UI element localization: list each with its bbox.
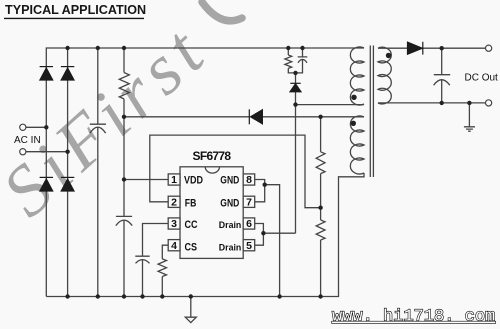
svg-text:8: 8 <box>246 174 252 186</box>
node: FB divider mid <box>318 206 322 210</box>
DC Out terminal top <box>486 45 492 51</box>
wire: snubber R branch <box>287 48 289 55</box>
node: ground rail VDD cap <box>122 294 126 298</box>
node: VDD rail / startup R <box>122 115 126 119</box>
node: primary phase dot <box>351 95 356 100</box>
wire: VDD cap lower lead <box>123 220 125 296</box>
wire: VDD/aux rail to diode <box>124 116 249 118</box>
svg-text:FB: FB <box>185 198 197 210</box>
wire: GND pins to ground rail <box>265 185 280 297</box>
svg-text:TYPICAL APPLICATION: TYPICAL APPLICATION <box>5 3 146 17</box>
wire: CC cap to ground <box>142 260 144 297</box>
transformer primary winding <box>350 47 364 105</box>
wire: bulk cap branch upper <box>97 48 99 124</box>
capacitor C-snubber <box>298 57 308 63</box>
wire: FB feedback loop <box>150 135 321 208</box>
node: aux phase dot <box>351 121 356 126</box>
node: secondary ground <box>467 101 471 105</box>
wire: secondary ground stem <box>468 103 470 127</box>
wire: drain vertical to primary <box>295 73 297 233</box>
node: ground rail CS res <box>160 294 164 298</box>
wire: CC lead <box>143 224 169 257</box>
wire: left bridge leg + top rail <box>46 48 364 297</box>
wire: CS lead <box>162 245 168 259</box>
svg-text:VDD: VDD <box>184 175 203 187</box>
wire: output cap upper lead <box>441 48 443 74</box>
pin 8 box <box>243 174 255 185</box>
svg-text:www. hi1718. com: www. hi1718. com <box>332 308 495 327</box>
diode bridge D2 top-right <box>61 67 74 80</box>
wire: aux diode to aux winding <box>262 116 364 118</box>
svg-text:DC Out: DC Out <box>465 73 499 84</box>
diode D-out (secondary rectifier, pointing right) <box>408 42 423 55</box>
transformer secondary winding <box>378 47 391 104</box>
node: ground rail divider <box>318 294 322 298</box>
diode D-vdd (aux rectifier, pointing left) <box>249 109 262 124</box>
wire: FB divider top <box>320 117 322 152</box>
ground main <box>185 317 196 322</box>
resistor R-snubber <box>285 55 292 68</box>
watermark C (partial, top edge) <box>202 2 242 21</box>
wire: bulk cap branch lower <box>97 127 99 296</box>
wire: secondary top to output <box>378 47 485 49</box>
capacitor C-cc <box>135 256 149 263</box>
wire: CS resistor to ground <box>161 277 163 297</box>
pin 3 box <box>168 218 180 229</box>
wire: right bridge leg <box>67 48 69 297</box>
AC IN terminal top <box>20 124 26 130</box>
wire: pin1 VDD lead <box>124 179 168 181</box>
transformer core <box>370 46 373 178</box>
node: snubber bottom <box>293 71 297 75</box>
node: ground rail right leg <box>65 294 69 298</box>
node: ground rail bulk cap <box>96 294 100 298</box>
node: bulk cap / top rail <box>96 46 100 50</box>
node: GND pins branch <box>263 183 267 187</box>
wire: drain branch <box>263 232 295 234</box>
node: secondary phase dot <box>386 53 391 58</box>
DC Out terminal bottom <box>486 100 492 106</box>
node: ground rail GND pins <box>277 294 281 298</box>
resistor R-startup <box>119 73 129 99</box>
node: startup R / top rail <box>122 46 126 50</box>
diode bridge D4 bottom-right <box>61 177 74 191</box>
svg-text:7: 7 <box>246 197 252 209</box>
wire: startup resistor to VDD node <box>123 99 125 216</box>
node: VDD pin lead <box>122 177 126 181</box>
resistor R-fb-upper <box>316 152 325 174</box>
svg-text:Drain: Drain <box>219 220 242 231</box>
wire: AC bottom terminal to right leg <box>26 151 68 153</box>
title underline <box>4 17 144 19</box>
diode D-clamp (snubber, pointing up) <box>290 83 301 92</box>
capacitor C-bulk <box>90 124 106 133</box>
wire: snubber C bottom <box>296 60 303 73</box>
node: right leg / top rail <box>65 46 69 50</box>
svg-text:SF6778: SF6778 <box>193 149 232 163</box>
pin 7 box <box>243 196 255 207</box>
svg-text:AC IN: AC IN <box>14 135 41 146</box>
wire: ground symbol stem <box>190 297 192 318</box>
diode bridge D1 top-left <box>40 67 53 80</box>
IC text labels <box>171 149 252 253</box>
pin 5 box <box>243 240 255 251</box>
node: drain / primary bottom <box>293 102 297 106</box>
wire: GND pins 8-7 tie <box>255 180 265 202</box>
node: output cap top <box>440 46 444 50</box>
pin 2 box <box>168 196 180 207</box>
pin 4 box <box>168 240 180 251</box>
AC IN terminal bottom <box>20 149 26 155</box>
svg-text:GND: GND <box>220 175 239 187</box>
svg-text:CS: CS <box>185 241 198 253</box>
svg-text:3: 3 <box>171 218 177 230</box>
svg-text:GND: GND <box>220 198 239 210</box>
svg-text:2: 2 <box>171 197 177 209</box>
resistor R-cs <box>158 259 166 277</box>
svg-text:1: 1 <box>171 174 177 186</box>
node: AC top / left leg <box>44 125 48 129</box>
svg-text:CC: CC <box>185 219 198 231</box>
node: aux / FB divider top <box>318 115 322 119</box>
svg-text:6: 6 <box>246 218 252 230</box>
svg-text:5: 5 <box>246 240 252 252</box>
wire: startup resistor branch top <box>123 48 125 73</box>
svg-text:Drain: Drain <box>219 242 242 253</box>
capacitor C-vdd <box>116 216 132 225</box>
wire: output cap lower lead <box>441 80 443 103</box>
capacitor C-out <box>434 75 451 86</box>
node: Drain pins branch <box>261 231 265 235</box>
svg-text:4: 4 <box>171 240 177 252</box>
node: snubber R / top rail <box>286 46 290 50</box>
resistor R-fb-lower <box>316 220 325 240</box>
wire: AC top terminal to left leg <box>26 126 46 128</box>
wire: snubber R bottom <box>288 68 295 73</box>
node: AC bottom / right leg <box>65 150 69 154</box>
ground secondary (earth bars) <box>464 127 475 131</box>
node: snubber C / top rail <box>300 46 304 50</box>
wire: divider middle <box>320 174 322 220</box>
wire: divider bottom to ground rail <box>320 240 322 297</box>
node: ground rail symbol <box>189 294 193 298</box>
node: ground rail CC cap <box>140 294 144 298</box>
wire: bottom ground rail + aux winding return <box>46 173 364 297</box>
pin 6 box <box>243 218 255 229</box>
wire: Drain pins 6-5 tie <box>255 224 264 246</box>
op IC U1 SF6778 body <box>180 167 243 259</box>
diode bridge D3 bottom-left <box>40 177 53 191</box>
wire: primary bottom to drain node <box>296 104 365 106</box>
wire: snubber C branch <box>302 48 304 57</box>
node: output cap bottom <box>440 101 444 105</box>
transformer aux winding <box>350 116 364 174</box>
pin 1 box <box>168 174 180 185</box>
wire: secondary bottom to output <box>378 102 485 104</box>
